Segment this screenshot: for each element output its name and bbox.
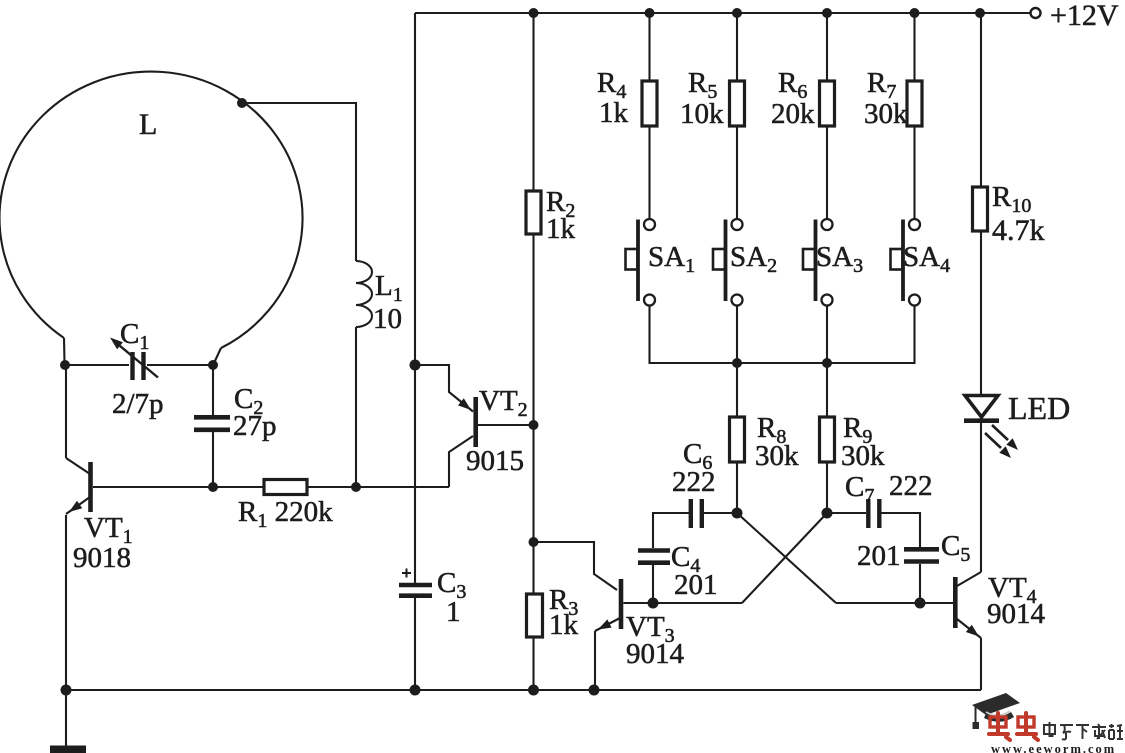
label C3 value — [437, 567, 466, 628]
resistor R8 — [730, 417, 745, 462]
svg-text:9014: 9014 — [987, 598, 1046, 630]
wire left vertical drop from rail to C3 — [414, 13, 416, 583]
wire C7 to C5 — [882, 513, 921, 547]
svg-text:L: L — [139, 108, 157, 141]
switch SA4 — [891, 219, 921, 306]
label C5 — [857, 530, 970, 572]
wire L1 to R1 row — [355, 327, 357, 487]
svg-text:+12V: +12V — [1050, 0, 1119, 32]
svg-text:4.7k: 4.7k — [992, 214, 1045, 247]
label C2 — [233, 383, 277, 442]
wire SA3 bottom lead — [826, 306, 828, 364]
wire R7 to SA4 — [913, 126, 915, 219]
transistor VT1 — [66, 458, 91, 514]
label L — [139, 108, 157, 141]
resistor R3 — [527, 594, 543, 637]
wire R9 node to C7 — [827, 512, 866, 514]
node C1 right — [208, 360, 218, 370]
svg-text:www.eeworm.com: www.eeworm.com — [991, 742, 1116, 753]
wire C6 to R8 node — [704, 512, 737, 514]
resistor R9 — [820, 417, 835, 462]
wire C5 bottom lead — [919, 564, 921, 603]
capacitor C7 — [868, 499, 879, 528]
transistor VT2 — [449, 397, 476, 487]
capacitor C5 — [904, 549, 939, 561]
label R7 — [864, 67, 908, 130]
label R10 — [992, 181, 1045, 247]
switch SA3 — [803, 219, 833, 306]
wire C4 to C6 — [653, 513, 689, 548]
node rail R2 — [529, 8, 539, 18]
wire VT1 emitter down — [65, 515, 67, 690]
node R8-C6 junction — [732, 508, 743, 519]
wire R2 column top — [532, 13, 534, 191]
resistor R7 — [907, 81, 922, 126]
wire C2 bottom lead — [212, 432, 214, 487]
node C4 base junction — [648, 598, 659, 609]
wire VT4 emitter to rail — [980, 638, 982, 690]
capacitor C1 variable — [110, 338, 158, 381]
label R1 value — [238, 496, 333, 532]
svg-text:30k: 30k — [841, 440, 885, 472]
resistor R10 — [973, 187, 988, 231]
node +12V terminal — [1031, 8, 1041, 18]
wire bus to R8 — [736, 363, 738, 417]
wire SA2 bottom lead — [736, 306, 738, 364]
wire C4 bottom lead — [652, 565, 654, 603]
label R2 — [546, 186, 576, 245]
wire R4 top lead — [648, 13, 650, 81]
label C6 — [672, 438, 716, 498]
wire ground lead — [65, 690, 67, 746]
wire C1 left lead — [65, 364, 129, 366]
wire VT2 base — [478, 424, 534, 426]
node rail R10 — [975, 8, 985, 18]
watermark site name — [1044, 722, 1123, 740]
svg-text:9014: 9014 — [626, 638, 685, 670]
switch SA2 — [713, 219, 743, 306]
label VT1 — [73, 512, 133, 574]
wire C1 right lead — [147, 364, 213, 366]
wire R6 to SA3 — [826, 126, 828, 219]
node L1 junction — [351, 482, 361, 492]
label R4 — [597, 67, 629, 129]
resistor R1 — [264, 480, 307, 495]
svg-text:222: 222 — [672, 466, 716, 498]
wire VT2 emitter lead — [415, 365, 473, 412]
node bottom rail VT3 emitter — [589, 685, 600, 696]
wire VT4 collector to LED — [980, 422, 982, 572]
svg-text:222: 222 — [889, 470, 933, 502]
wire loop to L1 — [242, 103, 356, 261]
node rail R7 — [910, 8, 920, 18]
svg-text:1k: 1k — [549, 609, 579, 641]
wire R2 bottom to R3 — [532, 234, 534, 594]
node rail R5 — [732, 8, 742, 18]
label VT3 — [626, 611, 685, 670]
inductor L1 — [356, 261, 372, 327]
wire R6 top lead — [826, 13, 828, 81]
node VT3 collector tap — [529, 537, 539, 547]
node C5 base junction — [915, 598, 926, 609]
wire R4 to SA1 — [648, 126, 650, 219]
svg-text:1k: 1k — [546, 213, 576, 245]
label R8 — [755, 412, 799, 472]
node bottom rail R3 — [528, 685, 539, 696]
wire bottom rail — [66, 689, 981, 691]
svg-text:R1 220k: R1 220k — [238, 496, 333, 532]
node bus R8 — [732, 358, 742, 368]
svg-text:9015: 9015 — [466, 445, 524, 477]
node C1 left — [60, 360, 70, 370]
wire VT1 collector up — [65, 365, 67, 458]
wire switch bus — [650, 306, 915, 364]
wire cross R8 to VT4base — [737, 513, 836, 603]
svg-text:201: 201 — [857, 540, 901, 572]
wire cross VT3base to R9 — [742, 513, 827, 603]
wire R7 top lead — [913, 13, 915, 81]
svg-text:2/7p: 2/7p — [112, 388, 164, 420]
node bus R9 — [822, 358, 832, 368]
capacitor C6 — [691, 499, 702, 528]
svg-text:201: 201 — [674, 569, 718, 601]
watermark chongchong red characters — [989, 713, 1038, 740]
node R9-C7 junction — [822, 508, 833, 519]
resistor R6 — [820, 81, 835, 126]
node VT2 base junction — [529, 420, 539, 430]
wire VT3 base — [624, 602, 743, 604]
label SA2 — [730, 241, 777, 277]
label SA1 — [648, 241, 695, 277]
svg-text:30k: 30k — [864, 98, 908, 130]
wire VT1 base row — [93, 486, 264, 488]
label SA3 — [816, 241, 863, 277]
resistor R2 — [526, 191, 541, 234]
label R6 — [771, 67, 815, 130]
wire C2 top lead — [212, 365, 214, 415]
resistor R4 — [642, 81, 657, 126]
wire R8 bottom lead — [736, 462, 738, 513]
svg-text:1k: 1k — [599, 97, 629, 129]
node bottom rail left — [61, 685, 72, 696]
node VT2 emitter tap — [410, 360, 421, 371]
label VT2 — [466, 385, 528, 477]
wire R1 to VT2 collector — [307, 486, 449, 488]
wire below C3 to bottom rail — [414, 598, 416, 690]
wire VT4 base — [836, 602, 953, 604]
transistor VT3 — [595, 579, 621, 631]
capacitor C2 — [194, 417, 230, 430]
capacitor C4 — [638, 551, 670, 563]
svg-text:10: 10 — [373, 303, 402, 335]
ground — [50, 746, 86, 753]
node +12V label — [1050, 0, 1119, 32]
wire R10 top lead — [980, 13, 982, 187]
label LED — [1008, 390, 1070, 426]
capacitor C3 — [399, 569, 432, 596]
label R5 — [680, 67, 724, 130]
label C1 value — [112, 388, 164, 420]
svg-text:LED: LED — [1008, 390, 1070, 426]
wire R3 to bottom rail — [532, 637, 534, 690]
wire VT3 collector tap — [534, 542, 618, 590]
label SA4 — [903, 241, 950, 277]
node loop top-right junction — [237, 98, 247, 108]
svg-text:10k: 10k — [680, 98, 724, 130]
resistor R5 — [730, 81, 745, 126]
label L1 value — [373, 270, 403, 335]
svg-text:20k: 20k — [771, 98, 815, 130]
label R3 — [549, 584, 579, 641]
watermark url — [991, 742, 1116, 753]
wire VT3 emitter down — [594, 631, 596, 690]
svg-text:1: 1 — [446, 596, 461, 628]
label C7 — [845, 470, 933, 507]
switch SA1 — [626, 219, 656, 306]
watermark logo — [972, 693, 1020, 729]
svg-text:30k: 30k — [755, 440, 799, 472]
label VT4 — [987, 572, 1046, 630]
node rail R4 — [645, 8, 655, 18]
node bottom rail C3 — [410, 685, 421, 696]
loop antenna L — [0, 72, 303, 363]
node rail R6 — [822, 8, 832, 18]
wire top +12V rail — [415, 12, 1030, 14]
svg-text:27p: 27p — [233, 410, 277, 442]
wire R5 to SA2 — [736, 126, 738, 219]
wire R5 top lead — [736, 13, 738, 81]
node base-C2 junction — [208, 482, 218, 492]
wire LED to R10 — [980, 231, 982, 395]
label C4 — [671, 541, 718, 601]
wire bus to R9 — [826, 363, 828, 417]
wire R9 bottom lead — [826, 462, 828, 513]
transistor VT4 — [955, 572, 981, 638]
LED D1 — [964, 396, 1018, 459]
label C1 — [120, 318, 149, 354]
svg-text:9018: 9018 — [73, 542, 131, 574]
label R9 — [841, 412, 885, 472]
